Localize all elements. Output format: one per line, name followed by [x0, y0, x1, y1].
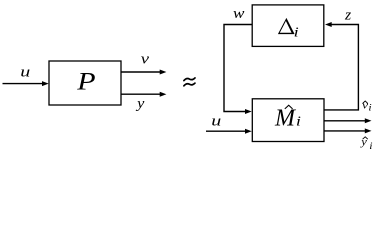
- svg-text:z: z: [344, 7, 351, 23]
- svg-text:i: i: [368, 104, 371, 113]
- svg-text:u: u: [211, 112, 221, 129]
- label y: [135, 96, 144, 112]
- svg-text:i: i: [369, 142, 372, 151]
- label z: [344, 7, 351, 23]
- wire w (Delta output to Mhat input): [224, 25, 252, 115]
- label u (left): [20, 63, 30, 80]
- svg-text:i: i: [294, 25, 299, 39]
- svg-text:u: u: [20, 63, 30, 80]
- label vhat_i: [362, 99, 372, 113]
- svg-text:M: M: [274, 105, 297, 131]
- wire v (output of P): [121, 70, 166, 75]
- wire yhat_i (output of Mhat): [324, 128, 372, 133]
- label v: [141, 50, 150, 67]
- svg-text:P: P: [76, 67, 96, 95]
- approx symbol: [184, 78, 195, 86]
- svg-text:i: i: [296, 115, 301, 129]
- label yhat_i: [360, 135, 373, 152]
- svg-text:w: w: [233, 6, 245, 22]
- block Mhat_i: [252, 99, 324, 142]
- wire vhat_i (output of Mhat): [324, 118, 372, 123]
- svg-text:y: y: [360, 135, 367, 148]
- wire z (Mhat output to Delta input): [324, 22, 358, 110]
- label u (right): [211, 112, 221, 129]
- label w: [233, 6, 245, 22]
- svg-text:y: y: [135, 96, 144, 112]
- label Delta_i: [278, 18, 299, 40]
- block P: [49, 61, 121, 105]
- label P: [76, 67, 96, 95]
- block Delta_i: [252, 5, 324, 47]
- label Mhat_i: [274, 105, 301, 131]
- svg-text:v: v: [141, 50, 150, 67]
- wire u (input to P): [3, 81, 49, 86]
- wire u (input to Mhat): [206, 129, 252, 134]
- wire y (output of P): [121, 92, 166, 97]
